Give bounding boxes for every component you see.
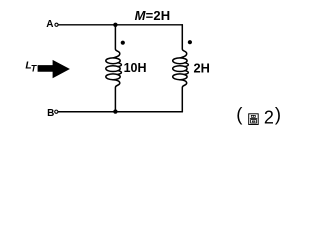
svg-text:): ) — [275, 104, 281, 125]
svg-text:B: B — [47, 108, 54, 119]
svg-text:2H: 2H — [194, 61, 210, 76]
svg-text:T: T — [31, 64, 38, 74]
svg-text:(: ( — [236, 104, 243, 125]
svg-text:2: 2 — [264, 108, 274, 128]
svg-text:M=2H: M=2H — [135, 8, 171, 23]
svg-text:10H: 10H — [124, 61, 147, 75]
svg-text:A: A — [46, 19, 53, 30]
